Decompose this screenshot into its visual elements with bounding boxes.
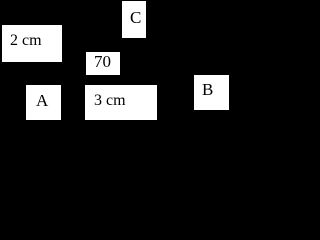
vertex label C	[122, 1, 146, 38]
vertex label B	[194, 75, 229, 110]
side label 2 cm (side AC)	[2, 25, 62, 62]
vertex label A	[26, 85, 61, 120]
side label 3 cm (side AB)	[85, 85, 157, 120]
angle label 70 (angle at A)	[86, 52, 120, 75]
